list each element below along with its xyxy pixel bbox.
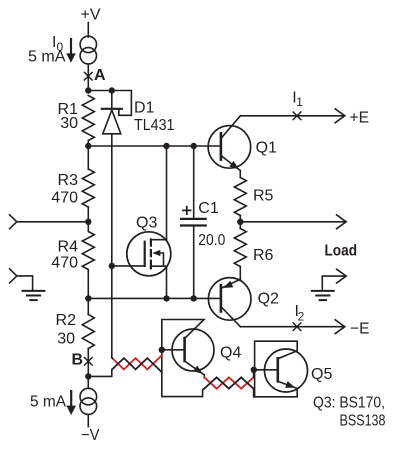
svg-text:−E: −E [350,321,370,338]
transistor Q5 box loop [251,341,298,397]
parasitic zigzag 2, black half [204,377,253,388]
svg-text:BSS138: BSS138 [340,413,386,430]
svg-text:R6: R6 [253,247,274,264]
transistor Q1 [208,116,251,178]
ground (input 2) [23,291,45,300]
resistor R2 [82,298,94,376]
transistor Q2 [208,267,251,327]
svg-text:TL431: TL431 [134,117,175,134]
svg-text:1: 1 [296,95,303,109]
ground (load return) [312,291,334,300]
wire Q3 drain riser [166,146,168,240]
svg-text:20.0: 20.0 [198,232,225,249]
svg-text:Load: Load [325,243,358,260]
svg-text:D1: D1 [134,100,155,117]
wire +E output [240,109,344,123]
parasitic zigzag 1, black half [112,358,162,372]
svg-text:R4: R4 [58,239,79,256]
svg-text:Q3: BS170,: Q3: BS170, [313,395,385,412]
svg-text:470: 470 [51,190,78,207]
svg-text:Q3: Q3 [136,215,157,232]
svg-text:470: 470 [51,255,78,272]
svg-text:Q5: Q5 [311,366,332,383]
bottom 5mA direction arrow [66,391,76,415]
wire rail 1 [85,143,221,149]
parasitic zigzag 2 (Q4 emitter to Q5 base), red half [204,370,253,397]
capacitor C1 [181,146,206,298]
parasitic zigzag 1 (node B to Q4 base), red half [112,355,162,372]
wire R1 bottom [87,141,89,147]
resistor R1 [82,96,94,141]
wire node A to D1 loop [88,87,131,115]
I0 direction arrow [66,39,76,63]
transistor Q4 box loop [159,320,205,397]
svg-text:30: 30 [57,331,75,348]
wire node B to zigzag [88,369,112,376]
load return arrow with ground [322,269,346,290]
wire -E output [240,320,344,334]
svg-text:A: A [94,67,106,84]
input arrow 2 with ground [10,269,33,291]
svg-text:R5: R5 [253,188,274,205]
resistor R5 [234,178,246,216]
svg-text:−V: −V [81,427,100,444]
resistor R4 [82,222,94,299]
input arrow 1 [10,215,92,229]
svg-text:B: B [72,352,84,369]
resistor R6 [234,229,246,267]
svg-text:30: 30 [60,115,78,132]
current source I0 top [80,23,96,91]
svg-text:Q2: Q2 [258,291,279,308]
wire zigzag 2 to Q5 box bottom stub [253,389,255,397]
transistor Q5 [254,349,308,392]
resistor R3 [82,146,94,222]
mosfet Q3 [109,232,171,276]
svg-text:5 mA: 5 mA [28,49,66,66]
svg-text:2: 2 [298,310,305,324]
svg-text:R2: R2 [56,312,77,329]
svg-text:R3: R3 [58,172,79,189]
svg-text:C1: C1 [198,200,219,217]
node B [85,358,93,380]
wire D1 anode stub into zigzag 1 [111,356,114,359]
current source bottom [80,376,97,426]
diode D1 TL431 [102,91,122,134]
svg-text:Q4: Q4 [220,345,241,362]
wire load output [240,215,346,229]
svg-text:Q1: Q1 [256,140,277,157]
transistor Q4 [162,329,214,378]
wire R5-R6 node [237,216,243,229]
wire Q3 source to rail 2 [166,266,168,298]
wire rail 2 [85,295,221,301]
svg-text:+V: +V [81,7,101,24]
wire D1 anode vertical down to parasitic zigzag [111,134,113,358]
node A [85,72,93,93]
svg-text:5 mA: 5 mA [30,394,66,411]
svg-text:+E: +E [350,110,370,127]
wire zigzag 2 to Q5 base stub [253,370,255,378]
